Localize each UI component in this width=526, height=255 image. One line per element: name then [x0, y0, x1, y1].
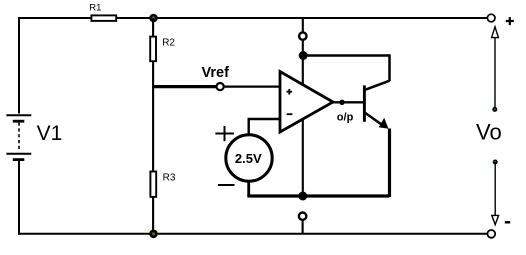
- svg-text:R1: R1: [89, 3, 101, 14]
- wire bottom loop horizontal (2.5V to emitter): [247, 194, 389, 197]
- wire 2.5V bottom vertical: [247, 180, 250, 196]
- wire mid vertical supply (x=303) top rail to bottom: [302, 18, 304, 33]
- resistor R3: [150, 172, 156, 197]
- svg-text:Vref: Vref: [202, 65, 230, 81]
- node output terminal bottom right: [487, 230, 495, 238]
- node mid bottom terminal circle: [299, 213, 306, 220]
- wire Vref thick segment: [152, 85, 216, 88]
- svg-text:R3: R3: [163, 173, 176, 184]
- label minus output: [505, 221, 510, 223]
- wire op-amp minus input horizontal: [248, 118, 281, 120]
- op-amp U1 triangle: [280, 72, 333, 133]
- wire Vref terminal to op-amp plus input: [224, 85, 280, 87]
- node junction top (green): [149, 14, 158, 23]
- wire 2.5V top vertical: [247, 119, 249, 137]
- node junction bottom (green): [149, 230, 158, 239]
- label source minus sign: [218, 184, 235, 186]
- wire R3 to bottom rail: [152, 197, 154, 234]
- battery V1: [6, 115, 31, 159]
- transistor emitter arrowhead: [379, 118, 389, 129]
- svg-text:V1: V1: [37, 122, 63, 145]
- node mid top terminal circle: [299, 32, 306, 39]
- wire left vertical battery to bottom rail: [18, 161, 20, 235]
- node output terminal top right: [487, 14, 495, 22]
- transistor collector diagonal: [365, 81, 390, 90]
- wire divider branch: rail to R2: [152, 18, 154, 37]
- node Vref terminal circle: [217, 83, 224, 90]
- wire top rail: [19, 17, 488, 19]
- node output dot: [339, 100, 344, 105]
- svg-text:2.5V: 2.5V: [235, 151, 262, 166]
- label plus output: [506, 20, 514, 22]
- wire op-amp output to transistor base: [333, 101, 363, 103]
- resistor R2: [150, 37, 156, 62]
- wire bottom rail: [19, 233, 487, 235]
- arrow Vo upper (arrowhead up): [492, 27, 499, 38]
- transistor Q1 base bar: [363, 85, 366, 121]
- wire collector right vertical: [388, 54, 391, 81]
- wire mid vertical continues through op-amp down to lower junction: [302, 40, 304, 196]
- wire emitter vertical down: [388, 129, 391, 198]
- label op-amp plus input: [287, 91, 293, 93]
- resistor R1: [91, 15, 116, 21]
- svg-text:R2: R2: [162, 38, 175, 49]
- label source plus sign: [215, 133, 234, 135]
- wire R2 to R3: [152, 62, 154, 172]
- node junction bottom loop: [298, 192, 307, 201]
- svg-text:Vo: Vo: [476, 119, 502, 144]
- node junction collector tap: [299, 51, 308, 60]
- wire collector top horizontal: [303, 54, 390, 57]
- arrow Vo lower (arrowhead down): [493, 160, 498, 165]
- transistor emitter diagonal: [365, 113, 384, 127]
- source 2.5V circle: [226, 135, 272, 181]
- svg-text:o/p: o/p: [337, 112, 354, 124]
- wire left vertical from rail to battery: [18, 17, 20, 114]
- label op-amp minus input: [287, 113, 293, 115]
- wire mid bottom to rail: [302, 220, 304, 234]
